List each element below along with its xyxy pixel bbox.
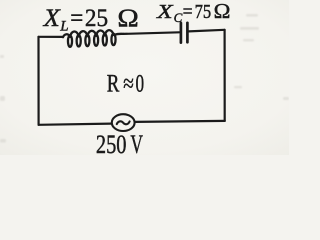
wire: right vertical side: [224, 30, 226, 121]
wire: capacitor to top-right corner: [189, 30, 225, 32]
svg-text:0: 0: [136, 71, 145, 98]
svg-text:75: 75: [195, 1, 212, 23]
svg-text:X: X: [43, 5, 62, 32]
svg-text:X: X: [156, 1, 174, 23]
label XC = 75 ohm: [156, 0, 231, 25]
svg-text:V: V: [130, 130, 143, 155]
svg-text:Ω: Ω: [214, 0, 231, 23]
(decorative: faint scan smudges, left margin): [0, 55, 6, 143]
svg-text:R: R: [107, 71, 120, 98]
wire: inductor to capacitor: [123, 32, 179, 34]
wire: bottom-left segment: [39, 124, 112, 125]
wire: left vertical side: [37, 37, 39, 125]
svg-text:=: =: [183, 1, 193, 23]
svg-text:=: =: [70, 5, 83, 32]
label 250 V: [96, 130, 143, 159]
svg-text:250: 250: [96, 130, 127, 155]
svg-text:≈: ≈: [123, 71, 134, 98]
svg-text:Ω: Ω: [117, 3, 138, 32]
inductor L (coil, 6 loops): [63, 30, 123, 47]
AC source circle: [112, 114, 135, 131]
label XL = 25 ohm: [43, 3, 139, 35]
wire: top-left segment to inductor: [39, 36, 64, 38]
svg-text:C: C: [174, 10, 183, 25]
(decorative: faint scan smudges, right margin): [234, 14, 289, 100]
wire: bottom-right segment: [135, 121, 225, 122]
label R approx 0: [107, 71, 144, 98]
capacitor C: left plate: [180, 23, 183, 43]
capacitor C: right plate: [186, 23, 189, 43]
svg-text:25: 25: [85, 5, 108, 32]
svg-text:L: L: [59, 18, 68, 34]
AC source tilde: [117, 121, 130, 124]
